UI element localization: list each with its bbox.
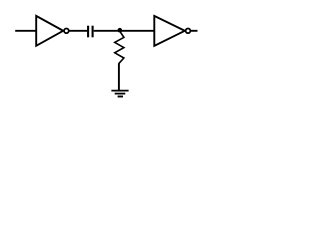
inverter U2 triangle: [154, 16, 185, 46]
inverter U1 output bubble: [64, 28, 69, 33]
ground bottom bar: [118, 96, 123, 98]
wire output: [191, 30, 198, 32]
ground top bar: [111, 90, 128, 92]
capacitor C1 right plate: [92, 26, 94, 38]
inverter U2 output bubble: [186, 28, 191, 33]
ground middle bar: [115, 93, 126, 95]
junction node dot: [118, 28, 123, 33]
inverter U1 triangle: [36, 16, 63, 46]
wire capacitor to inverter U2: [94, 30, 155, 32]
capacitor C1 left plate: [87, 26, 89, 38]
resistor R1 zigzag: [115, 31, 124, 63]
wire input: [15, 30, 36, 32]
wire bubble to capacitor: [69, 30, 87, 32]
wire resistor to ground: [118, 63, 120, 90]
